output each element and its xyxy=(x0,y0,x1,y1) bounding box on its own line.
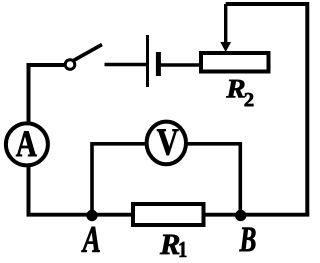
battery cell xyxy=(148,35,159,87)
label A xyxy=(81,227,99,252)
node A junction dot xyxy=(86,210,97,221)
wire top-left corner (horizontal to left vertical down to ammeter) xyxy=(29,65,65,125)
ammeter U-A xyxy=(6,123,48,165)
label R2 xyxy=(226,80,253,106)
switch S xyxy=(65,45,102,70)
voltmeter branch left wire xyxy=(92,144,146,216)
node B junction dot xyxy=(235,210,246,221)
voltmeter branch right wire xyxy=(186,144,240,216)
bottom wire xyxy=(27,213,310,217)
label B xyxy=(239,228,255,252)
label R1 xyxy=(160,235,186,257)
rheostat R2 wiper arrow xyxy=(220,4,231,52)
wire ammeter to bottom wire xyxy=(27,165,31,215)
voltmeter U-V xyxy=(147,122,186,165)
rheostat R2 body xyxy=(201,53,269,72)
wire battery to R2 xyxy=(159,63,201,67)
resistor R1 body xyxy=(133,204,204,225)
wire switch to battery xyxy=(105,63,147,67)
wire wiper top across and down right side xyxy=(226,4,308,215)
